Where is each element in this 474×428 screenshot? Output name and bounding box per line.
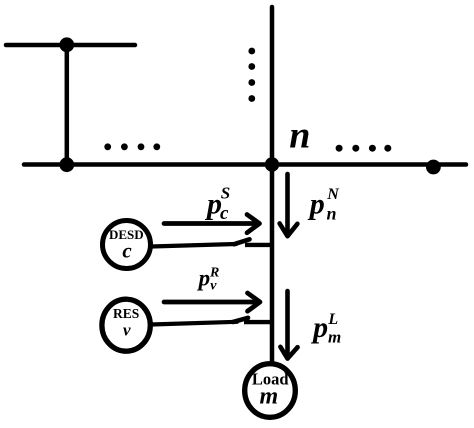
wire: tie-line vertical between feeders <box>65 45 70 165</box>
switch: RES feeder line <box>151 322 237 325</box>
arrow p_m^L (load draw) <box>280 291 297 359</box>
label p_m^L <box>310 311 341 347</box>
DESD c source circle <box>103 221 151 269</box>
label p_c^S <box>204 183 230 224</box>
switch: DESD blade <box>234 239 250 244</box>
svg-text:p: p <box>307 188 325 221</box>
switch: DESD feeder line <box>151 244 236 247</box>
wire: feeder vertical through node n down to load <box>270 7 275 364</box>
svg-text:L: L <box>327 311 338 328</box>
ellipsis dots left of node n <box>104 143 160 150</box>
arrow p_v^R (RES injection) <box>164 293 260 311</box>
svg-text:n: n <box>289 115 310 157</box>
label p_v^R <box>197 265 220 293</box>
node: junction dot on upper feeder <box>59 37 74 52</box>
wire: main bus horizontal <box>24 162 466 167</box>
RES v source circle <box>102 299 150 351</box>
svg-text:N: N <box>326 186 340 203</box>
ellipsis dots vertical beside feeder <box>248 48 255 102</box>
switch: RES blade <box>233 318 248 322</box>
svg-text:RES: RES <box>113 306 139 321</box>
svg-text:m: m <box>259 383 278 409</box>
svg-text:c: c <box>220 203 229 224</box>
node: junction dot on main bus left <box>59 157 74 172</box>
arrow p_c^S (DESD injection) <box>164 215 260 233</box>
svg-text:n: n <box>327 203 337 223</box>
node: remote bus dot right <box>426 160 441 175</box>
svg-text:p: p <box>197 265 211 290</box>
svg-text:p: p <box>310 311 328 344</box>
wire: upper-left feeder horizontal <box>6 43 135 48</box>
svg-text:v: v <box>123 321 131 340</box>
wire: switch stub to bus (DESD) <box>245 243 272 247</box>
svg-text:m: m <box>328 328 341 347</box>
arrow p_n^N (network flow into bus) <box>280 174 298 236</box>
svg-text:S: S <box>221 183 230 202</box>
label p_n^N <box>307 186 341 224</box>
svg-text:c: c <box>122 239 132 263</box>
Load m circle <box>245 364 296 418</box>
svg-text:v: v <box>210 279 217 294</box>
ellipsis dots right of node n <box>336 145 392 152</box>
wire: switch stub to bus (RES) <box>244 320 272 324</box>
node n junction dot <box>265 157 279 171</box>
